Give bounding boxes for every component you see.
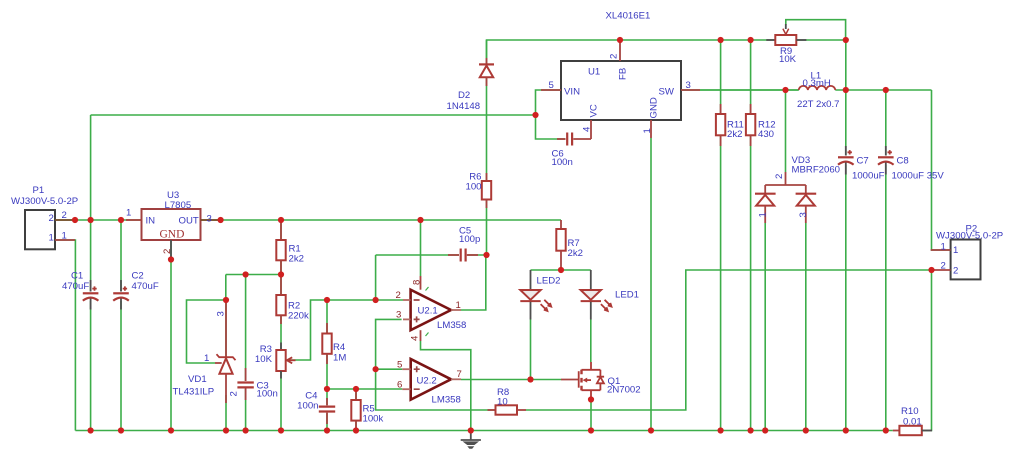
wire LED2 bottom <box>530 320 532 380</box>
svg-text:IN: IN <box>146 216 156 227</box>
svg-text:1: 1 <box>456 300 461 311</box>
wire y115 input line <box>91 114 536 116</box>
svg-text:LM358: LM358 <box>437 320 466 331</box>
wire R7 LED line y270 <box>531 269 591 271</box>
svg-text:1000uF 35V: 1000uF 35V <box>892 171 945 182</box>
junction bus R12 <box>748 427 754 433</box>
wire U2.1 pin8 supply <box>420 220 422 276</box>
svg-text:2: 2 <box>609 54 620 59</box>
junction bus VD3.1 <box>762 427 768 433</box>
svg-text:XL4016E1: XL4016E1 <box>606 11 651 22</box>
junction VD3 SW <box>782 87 788 93</box>
wire pin3 pin5 riser <box>376 319 496 410</box>
svg-text:3: 3 <box>216 311 227 316</box>
svg-text:5: 5 <box>397 360 402 371</box>
svg-text:100k: 100k <box>363 414 384 425</box>
junction R5 top <box>353 386 359 392</box>
junction C1 top <box>88 217 94 223</box>
op-amp U2.2 <box>402 359 461 400</box>
svg-text:GND: GND <box>649 97 660 118</box>
capacitor C7 <box>838 146 854 175</box>
wire C5 right to R6 junction <box>467 254 487 256</box>
U1 pin 3 SW stub <box>681 89 700 91</box>
wire R11 column <box>720 40 722 431</box>
svg-text:1N4148: 1N4148 <box>447 101 481 112</box>
U2.1 pin indicator marks <box>426 287 429 336</box>
wire VD1 top line y274.5 <box>226 274 281 276</box>
regulator U3 box <box>142 209 201 240</box>
svg-text:6: 6 <box>397 380 402 391</box>
wire SW down to P2 pin1 <box>932 90 951 250</box>
wire C5 line y255 <box>376 254 460 256</box>
junction C5 left <box>373 297 379 303</box>
U1 pin 4 VC stub <box>590 120 592 139</box>
ground symbol <box>461 431 481 449</box>
junction bus C2 <box>118 427 124 433</box>
svg-text:GND: GND <box>160 229 185 241</box>
junction bus C1 <box>88 427 94 433</box>
wire P1 pin2 to U3 IN <box>55 219 142 221</box>
svg-text:0.3mH: 0.3mH <box>803 78 831 89</box>
junction C3 top <box>243 271 249 277</box>
wire R4 C4 column <box>326 300 328 431</box>
svg-text:7: 7 <box>457 369 462 380</box>
resistor R7 <box>556 220 565 270</box>
wire +5V rail y220 <box>201 219 562 221</box>
resistor R10 <box>893 426 932 435</box>
wire R1 R2 R3 column <box>280 220 282 431</box>
junction C5 right <box>483 252 489 258</box>
svg-text:SW: SW <box>659 87 675 98</box>
U1 pin 5 VIN stub <box>541 89 561 91</box>
inductor L1 <box>799 86 836 90</box>
U3 pin 3 stub <box>201 219 221 221</box>
svg-text:1: 1 <box>49 233 54 244</box>
junction R11 top <box>718 37 724 43</box>
svg-text:4: 4 <box>410 335 421 341</box>
svg-text:LED1: LED1 <box>615 290 639 301</box>
junction C8 top <box>883 87 889 93</box>
wire R5 column <box>355 389 357 431</box>
junction R1 top <box>278 217 284 223</box>
svg-text:WJ300V-5.0-2P: WJ300V-5.0-2P <box>936 231 1003 242</box>
svg-text:220k: 220k <box>288 311 309 322</box>
junction C2 top <box>118 217 124 223</box>
junction R7 bottom <box>558 267 564 273</box>
svg-text:2: 2 <box>396 290 401 301</box>
junction Q1 source <box>588 396 594 402</box>
svg-text:D2: D2 <box>458 90 470 101</box>
wire y389 line to pin6 <box>327 388 402 390</box>
wire U3 GND column <box>170 240 172 431</box>
svg-text:WJ300V-5.0-2P: WJ300V-5.0-2P <box>11 196 78 207</box>
svg-text:5: 5 <box>549 80 554 91</box>
capacitor C3 <box>237 368 253 400</box>
svg-text:1M: 1M <box>333 353 346 364</box>
junction VIN <box>532 112 538 118</box>
wire U2.2 output gate line <box>461 379 561 381</box>
resistor R4 <box>322 323 331 364</box>
svg-text:2: 2 <box>229 391 240 396</box>
svg-text:1: 1 <box>62 231 67 242</box>
svg-text:U1: U1 <box>588 67 600 78</box>
svg-text:1: 1 <box>204 353 209 364</box>
svg-text:LM358: LM358 <box>432 395 461 406</box>
junction U3 GND <box>168 256 174 262</box>
wire VIN riser and y115 line <box>536 90 569 139</box>
svg-text:MBRF2060: MBRF2060 <box>792 165 841 176</box>
svg-text:8: 8 <box>412 280 423 285</box>
junction R9 right <box>843 37 849 43</box>
svg-text:U2.2: U2.2 <box>417 376 437 387</box>
svg-text:U2.1: U2.1 <box>418 306 438 317</box>
svg-text:VC: VC <box>589 104 600 117</box>
svg-text:2: 2 <box>953 266 958 277</box>
svg-text:VIN: VIN <box>564 87 580 98</box>
svg-text:C8: C8 <box>897 156 909 167</box>
wire VD1 cathode down <box>225 300 227 357</box>
P2 pin 1 stub <box>931 249 951 251</box>
resistor R6 <box>482 173 491 208</box>
shunt reference VD1 TL431 <box>215 300 236 403</box>
svg-text:2k2: 2k2 <box>289 254 304 265</box>
wire ground bus y430.5 <box>75 430 892 432</box>
wire R9 wiper loop <box>786 20 846 40</box>
svg-text:VD1: VD1 <box>188 374 207 385</box>
svg-text:L7805: L7805 <box>165 200 192 211</box>
wire L1 left <box>700 89 799 91</box>
junction bus ground <box>468 427 474 433</box>
junction U2.1 pin8 <box>417 217 423 223</box>
dual diode VD3 MBRF2060 <box>755 172 816 223</box>
wire D2 R6 column <box>486 40 488 255</box>
wire C7 column <box>845 40 847 431</box>
svg-text:1: 1 <box>758 212 769 217</box>
junction bus VD1 <box>223 427 229 433</box>
wire Q1 source to bus <box>590 400 592 431</box>
svg-text:2: 2 <box>941 261 946 272</box>
svg-text:2: 2 <box>774 174 785 179</box>
wire P2 pin2 down to R10 <box>922 270 932 431</box>
wire U2.1 output up to C5/R6 <box>461 255 486 310</box>
resistor R12 <box>746 104 755 146</box>
U1 pin 2 FB stub <box>619 40 621 61</box>
wire VD3 cathode riser <box>785 90 787 172</box>
wire R8 right riser to P2.2 line <box>526 270 932 410</box>
svg-text:2k2: 2k2 <box>568 248 583 259</box>
svg-text:100n: 100n <box>257 389 278 400</box>
svg-text:C2: C2 <box>132 271 144 282</box>
U3 pin 2 GND stub <box>170 240 172 260</box>
svg-text:470uF: 470uF <box>132 281 159 292</box>
svg-text:0.01: 0.01 <box>903 416 922 427</box>
capacitor C2 <box>113 280 129 310</box>
junction bus C7 <box>843 427 849 433</box>
junction P1.2 <box>72 217 78 223</box>
capacitor C1 <box>83 280 99 310</box>
svg-text:10K: 10K <box>255 354 273 365</box>
LED2 <box>520 270 551 320</box>
connector P2 <box>951 240 981 280</box>
junction U3 OUT <box>218 217 224 223</box>
svg-text:C1: C1 <box>71 271 83 282</box>
junction R4 top <box>324 297 330 303</box>
wire VD1 loop <box>187 275 226 364</box>
junction LED2 gate <box>527 376 533 382</box>
svg-text:2: 2 <box>162 249 173 254</box>
junction bus Q1 <box>588 427 594 433</box>
wire C8 column <box>885 90 887 431</box>
svg-text:1: 1 <box>126 208 131 219</box>
svg-text:1: 1 <box>941 242 946 253</box>
junction P2.2 <box>928 267 934 273</box>
capacitor C5 <box>448 249 478 262</box>
U3 pin 1 stub <box>126 219 142 221</box>
U1 pin 1 GND stub <box>650 120 652 138</box>
svg-text:FB: FB <box>618 68 629 80</box>
svg-text:470uF: 470uF <box>62 281 89 292</box>
diode D2 1N4148 <box>479 58 494 86</box>
wire U2.1 pin4 to ground column <box>421 341 471 431</box>
svg-text:100: 100 <box>465 182 481 193</box>
wire VD3 anode 1 down <box>764 223 766 431</box>
svg-text:R4: R4 <box>333 342 346 353</box>
svg-text:3: 3 <box>207 214 212 225</box>
junction pin5 <box>373 366 379 372</box>
junction R1 R2 <box>278 271 284 277</box>
wire R3 wiper to riser <box>289 300 404 360</box>
wire VD3 anode 3 down <box>805 223 807 431</box>
svg-text:22T 2x0.7: 22T 2x0.7 <box>797 99 840 110</box>
junction C7 top <box>843 87 849 93</box>
junction R4 bottom <box>324 386 330 392</box>
LED1 <box>581 270 612 320</box>
wire C1 column <box>90 115 92 431</box>
MOSFET Q1 2N7002 <box>561 362 604 400</box>
wire VD1 anode to bus <box>225 395 227 431</box>
svg-text:3: 3 <box>396 309 401 320</box>
resistor R1 <box>276 220 285 275</box>
wire C3 column <box>245 275 247 431</box>
svg-text:P1: P1 <box>33 185 45 196</box>
junction bus U1 <box>648 427 654 433</box>
junction bus R11 <box>718 427 724 433</box>
junction bus C4 <box>324 427 330 433</box>
resistor R11 <box>716 104 725 146</box>
junction bus R3 <box>278 427 284 433</box>
svg-text:4: 4 <box>582 126 593 132</box>
svg-text:3: 3 <box>798 212 809 217</box>
svg-text:100n: 100n <box>552 157 573 168</box>
resistor R5 <box>351 389 360 431</box>
P1 pin 1 stub <box>55 239 75 241</box>
junction bus R5 <box>353 427 359 433</box>
capacitor C6 <box>557 133 591 146</box>
svg-text:2N7002: 2N7002 <box>607 385 641 396</box>
connector P1 <box>25 210 55 249</box>
wire top rail y40 D2 to R9 right <box>487 40 846 58</box>
svg-text:100n: 100n <box>297 401 318 412</box>
svg-text:430: 430 <box>758 129 774 140</box>
svg-text:2k2: 2k2 <box>727 129 742 140</box>
junction bus U3 <box>168 427 174 433</box>
svg-text:10: 10 <box>497 397 508 408</box>
wire U1 GND column <box>650 138 652 431</box>
svg-text:3: 3 <box>686 80 691 91</box>
wire SW line y90 <box>681 89 799 91</box>
op-amp U2.1 <box>403 276 461 341</box>
svg-text:2: 2 <box>62 210 67 221</box>
wire C2 column <box>120 220 122 431</box>
wire R12 column <box>750 40 752 431</box>
svg-text:1: 1 <box>642 128 653 133</box>
junction bus C8 <box>883 427 889 433</box>
wire P1 pin1 down <box>55 240 75 431</box>
junction FB <box>617 37 623 43</box>
potentiometer R9 <box>766 24 806 45</box>
resistor R8 <box>488 405 527 414</box>
svg-text:1000uF: 1000uF <box>852 171 885 182</box>
junction R12 top <box>748 37 754 43</box>
junction bus VD3.3 <box>803 427 809 433</box>
junction bus C3 <box>243 427 249 433</box>
wire pin5 stub line <box>376 368 403 370</box>
svg-text:TL431ILP: TL431ILP <box>173 387 215 398</box>
resistor R2 <box>276 275 285 325</box>
svg-text:OUT: OUT <box>179 216 199 227</box>
svg-text:2: 2 <box>49 213 54 224</box>
wire LED1 bottom <box>590 320 592 363</box>
capacitor C8 <box>878 146 894 175</box>
junction VD1 ref <box>223 297 229 303</box>
P1 pin 2 stub <box>55 219 75 221</box>
IC U1 box XL4016 <box>561 61 681 120</box>
capacitor C4 <box>319 398 335 424</box>
svg-text:1: 1 <box>953 245 958 256</box>
svg-text:10K: 10K <box>779 54 797 65</box>
P2 pin 2 stub <box>932 269 951 271</box>
wire C5 left riser <box>375 255 377 300</box>
svg-text:LED2: LED2 <box>537 276 561 287</box>
svg-text:C7: C7 <box>857 156 869 167</box>
svg-text:100p: 100p <box>459 234 480 245</box>
potentiometer R3 <box>276 343 295 379</box>
